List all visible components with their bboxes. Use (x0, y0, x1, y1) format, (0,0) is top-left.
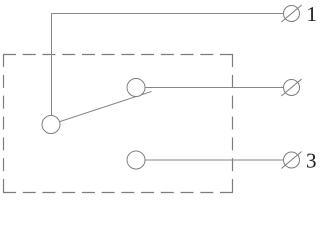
enclosure dashed box: top edge (3, 54, 233, 56)
enclosure dashed box: bottom edge (3, 192, 233, 194)
terminal symbol 1 (circle) (284, 6, 300, 22)
enclosure dashed box: left edge (3, 54, 5, 192)
pin label 3 (307, 154, 316, 168)
terminal symbol 3 (circle) (284, 152, 300, 168)
contact node (middle, normally-closed contact) (127, 79, 145, 97)
terminal symbol 1 (slash) (281, 5, 301, 22)
terminal symbol 2 (circle) (284, 80, 300, 96)
switch pole (common contact) (42, 116, 60, 134)
wire: pole to terminal 1 (horizontal segment) (52, 13, 284, 15)
switch lever (moving contact arm) (60, 92, 152, 122)
wire: pole to terminal 1 (vertical segment) (51, 14, 53, 116)
terminal symbol 3 (slash) (281, 152, 301, 169)
pin label 1 (308, 7, 315, 21)
wire: middle contact to terminal 2 (145, 87, 284, 89)
terminal symbol 2 (slash) (281, 79, 301, 96)
contact node (bottom) (127, 151, 145, 169)
wire: bottom contact to terminal 3 (145, 159, 284, 161)
enclosure dashed box: right edge (232, 54, 234, 192)
